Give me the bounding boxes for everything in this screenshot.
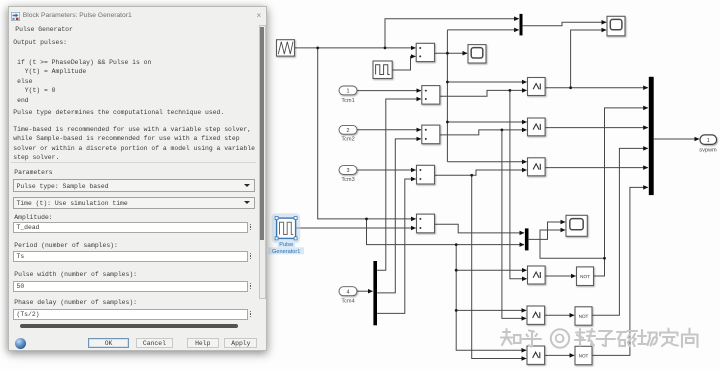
Sum2 block [422, 86, 440, 105]
node carrier to Mux3 tap [455, 243, 458, 246]
glyph ding [660, 329, 678, 347]
wire Tcm2 to Sum3 input 1 [357, 129, 421, 131]
node carrier branch A [316, 47, 319, 50]
relational operator GE6 [527, 346, 545, 364]
svg-text:Tcm2: Tcm2 [341, 137, 354, 143]
wire Sum1 output to Scope2 [435, 52, 468, 54]
svg-text:Pulse: Pulse [279, 242, 293, 248]
separator [11, 162, 256, 163]
wire GE6 output to NOT3 [545, 354, 574, 356]
Sum4 block [417, 165, 435, 184]
Help button [187, 338, 220, 349]
outport svpwm [699, 135, 717, 154]
relational operator GE1 [528, 78, 546, 96]
wire NOT1 output riser to big Mux2 input 2 [594, 108, 648, 276]
glyph hu [523, 331, 542, 347]
svg-text:Tcm4: Tcm4 [341, 299, 354, 305]
wire Sum2 output to GE1 input 2 [440, 90, 527, 96]
Sum3 block [422, 125, 440, 144]
help sphere icon [15, 338, 26, 349]
node Sum4 output tap [470, 174, 473, 177]
logical operator NOT3 [575, 346, 592, 364]
Demux bar for Tcm4 [373, 261, 377, 325]
time combo [13, 197, 255, 210]
amplitude label [14, 214, 52, 221]
wire carrier branch vertical to lower comparators [456, 245, 526, 351]
parameters group label [14, 169, 52, 176]
svg-text:Tcm3: Tcm3 [341, 177, 354, 183]
wire Pulse Generator output to Sum1 input 2 [392, 56, 415, 70]
output pulses label [13, 39, 67, 46]
amplitude field [13, 222, 248, 233]
wire small Mux3 output to Scope3 input 1 [529, 222, 565, 239]
wire NOT3 output riser to big Mux2 input 6 [592, 187, 648, 355]
svg-text:Generator1: Generator1 [272, 249, 300, 255]
node carrier to Sum5 tap [365, 218, 368, 221]
Scope2 block [468, 45, 486, 63]
horizontal scrollbar thumb [20, 324, 238, 328]
wire carrier descent to Sum5 input 1 [318, 48, 416, 219]
Mux1 (top mux bar) [520, 14, 523, 36]
wire Sum3 output to GE2 input 2 [440, 130, 527, 135]
phase delay label [14, 299, 137, 306]
wire GE3 output to big Mux2 input 5 [545, 167, 648, 169]
node NOT1 output tap to Scope3 [603, 257, 606, 260]
wire big Mux2 output to outport svpwm [654, 138, 699, 140]
svg-text:NOT: NOT [579, 353, 589, 358]
wire branch up to Mux1 input 1 [385, 19, 519, 48]
glyph ci [617, 331, 637, 346]
vertical scrollbar thumb [260, 27, 264, 240]
svg-text:NOT: NOT [580, 274, 590, 279]
wire NOT2 output riser to big Mux2 input 4 [592, 148, 648, 315]
glyph at-sign [551, 329, 569, 347]
inport Tcm1 [339, 86, 357, 104]
svg-text:4: 4 [347, 289, 350, 295]
glyph zi [597, 331, 616, 346]
wire Tcm1 to Sum2 input 1 [357, 90, 421, 92]
wire GE5 output to NOT2 [545, 314, 574, 316]
relational operator GE3 [528, 158, 546, 176]
logical operator NOT2 [575, 307, 592, 325]
glyph zhi [501, 329, 521, 345]
node carrier tap to GE5 [455, 309, 458, 312]
pulse type description [13, 109, 224, 116]
wire carrier to GE4 input 1 [456, 269, 526, 271]
svg-text:1: 1 [347, 89, 350, 95]
phase delay field [13, 309, 248, 320]
block parameters dialog window [8, 6, 267, 351]
Cancel button [136, 338, 173, 349]
svg-text:3: 3 [347, 168, 350, 174]
Mux3 (small mux bar) [525, 228, 529, 250]
close button [257, 12, 262, 19]
watermark zhihu text [501, 329, 698, 348]
inport Tcm4 [339, 287, 357, 305]
node shifted-carrier tap to GE2 [446, 121, 449, 124]
svg-text:1: 1 [707, 138, 710, 144]
wire Sum2 output branch down to GE4 input 2 [510, 90, 527, 278]
pulse generator block (gray) [373, 61, 392, 79]
relational operator GE5 [527, 306, 545, 324]
Apply button [224, 338, 257, 349]
wire Sum4 output to GE3 input 2 [435, 170, 527, 175]
period field [13, 251, 248, 262]
wire to relational operator GE2 input 1 [447, 121, 526, 123]
inport Tcm2 [339, 125, 357, 142]
node carrier branch B [384, 47, 387, 50]
wire Pulse Generator1 output to Sum5 input 2 [296, 227, 416, 229]
node Sum2 output tap [509, 89, 512, 92]
wire carrier branch down to small Mux3 input 2 [367, 219, 525, 245]
glyph chang [638, 330, 657, 346]
Scope3 block [566, 215, 587, 236]
wire vertical net x447 [446, 30, 448, 162]
pulse width label [14, 271, 137, 278]
wire Demux output 2 riser to Sum3 input 2 [377, 139, 421, 293]
node Sum3 output tap [501, 129, 504, 132]
wire Sum3 output branch down to GE5 input 2 [502, 130, 526, 319]
Pulse Generator1 block (selected, blue) [269, 216, 305, 255]
node shifted-carrier tap to GE1 [446, 81, 449, 84]
wire Sum1 output vertical bus to Mux1 input 2 [447, 29, 518, 31]
inport Tcm3 [339, 166, 357, 183]
wire to relational operator GE1 input 1 [447, 81, 526, 83]
wire GE2 output to big Mux2 input 3 [545, 127, 648, 129]
wire carrier row from repeating sequence to Sum1 [295, 47, 416, 49]
OK button [88, 338, 130, 349]
Scope1 block [607, 16, 625, 36]
node GE1 output tap to Scope1 [569, 86, 572, 89]
wire Tcm3 to Sum4 input 1 [357, 169, 416, 171]
pulse width field [13, 281, 248, 292]
svg-text:Tcm1: Tcm1 [341, 98, 354, 104]
svg-text:2: 2 [347, 128, 350, 134]
wire GE1 output to big Mux2 input 1 [545, 87, 648, 89]
wire Sum5 output to small Mux3 input 1 [435, 224, 524, 233]
node carrier tap to GE4 [455, 269, 458, 272]
wire Demux output 3 riser to Sum4 input 2 [377, 179, 416, 313]
pulse type combo [13, 179, 255, 192]
title text [23, 12, 132, 19]
glyph zhuan [575, 329, 595, 346]
wire GE4 output to NOT1 [545, 275, 575, 277]
wire NOT1 tap to Scope3 input 2 [540, 230, 605, 258]
wire Tcm4 to Demux [357, 290, 373, 292]
logical operator NOT1 [577, 267, 594, 286]
repeating sequence sawtooth block [277, 40, 295, 56]
title bar icon [11, 12, 20, 21]
heading [15, 26, 73, 33]
period label [14, 242, 118, 249]
vertical scrollbar track [259, 25, 266, 299]
Sum5 block [417, 214, 435, 233]
relational operator GE4 [528, 266, 546, 284]
code block [13, 58, 151, 106]
glyph xiang [682, 329, 698, 348]
recommendation paragraph [13, 125, 255, 163]
Mux2 (big mux bar) [649, 77, 654, 195]
wire GE1 output tap to Scope1 input 2 [571, 30, 607, 88]
wire carrier to GE5 input 1 [456, 309, 526, 311]
svg-text:NOT: NOT [579, 314, 589, 319]
Sum1 block [416, 43, 434, 61]
wire Demux output 1 riser to Sum2 input 2 [377, 99, 421, 270]
wire Sum4 output branch down to GE6 input 2 [472, 175, 526, 358]
svg-text:svpwm: svpwm [699, 147, 717, 153]
relational operator GE2 [528, 118, 546, 136]
wire to relational operator GE3 input 1 [447, 161, 526, 163]
node Sum1 output tap [446, 52, 449, 55]
wire Mux1 output to Scope1 input 1 [523, 22, 607, 25]
